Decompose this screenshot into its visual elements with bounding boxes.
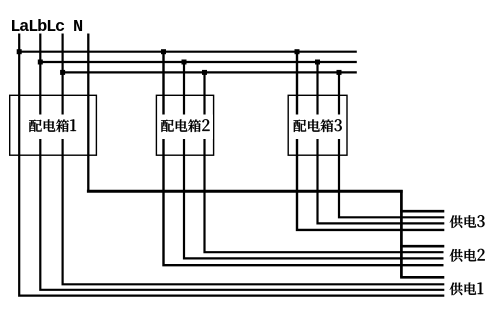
svg-text:LaLbLc N: LaLbLc N [10, 18, 83, 37]
